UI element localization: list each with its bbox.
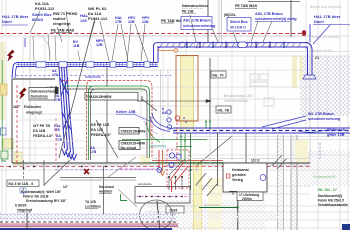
label HAL 17B ueber Dach blue xyxy=(2,14,29,24)
dark block GU xyxy=(55,87,59,94)
pale green halo band xyxy=(93,87,145,92)
svg-text:CM32015+WW: CM32015+WW xyxy=(121,142,146,146)
M circles xyxy=(169,153,181,168)
magenta dash-dot to valve xyxy=(120,168,156,170)
small yellow box left xyxy=(3,139,13,149)
label WT PE 7B block xyxy=(33,124,54,138)
svg-text:Technikzentrale: Technikzentrale xyxy=(224,99,248,103)
gray arc top-left xyxy=(35,33,50,58)
gray diagonal bottom xyxy=(118,189,137,207)
svg-text:EA 3 W 11B - 6: EA 3 W 11B - 6 xyxy=(9,182,34,186)
blue diagonal pointer right xyxy=(262,116,306,127)
tray B left elbow down xyxy=(12,63,17,79)
label DG5 box xyxy=(166,206,184,213)
dark dash row xyxy=(0,221,176,223)
label HAL 125 blue xyxy=(80,13,89,23)
svg-text:gerades: gerades xyxy=(232,173,246,177)
red X marker xyxy=(84,169,89,174)
svg-text:Drehstrom: Drehstrom xyxy=(31,95,48,99)
wire blue drop right x310 xyxy=(309,24,311,42)
bottom wall black xyxy=(12,162,310,164)
box with magenta dashdot xyxy=(135,187,190,204)
extra drop lines to tray xyxy=(33,34,80,61)
heizkanal box xyxy=(223,163,267,192)
svg-text:Datenanschluss: Datenanschluss xyxy=(31,90,57,94)
wire blue vertical x25 xyxy=(24,38,26,47)
gray slashes right of heizkanal xyxy=(272,155,282,166)
svg-text:17B: 17B xyxy=(90,150,97,154)
gray diagonal small xyxy=(169,158,186,175)
navy line bottom xyxy=(0,228,172,230)
blue leader top right xyxy=(313,25,330,44)
svg-text:westlich: westlich xyxy=(98,190,112,194)
label BV 11B blue above tray xyxy=(73,40,80,48)
label ADL 17B Braun schutzverrohrt blue xyxy=(255,12,297,21)
faint horizontal y158.5 xyxy=(152,158,310,160)
red diagonals xyxy=(170,162,184,180)
svg-text:Lechtlüss: Lechtlüss xyxy=(85,205,101,209)
svg-text:Dach: Dach xyxy=(314,19,324,24)
svg-text:b 80/20: b 80/20 xyxy=(15,204,27,208)
label WK PL 62 xyxy=(88,6,108,21)
lavender dotted rows xyxy=(0,214,175,216)
svg-text:KE_70: KE_70 xyxy=(213,74,224,78)
green supply line bottom xyxy=(199,207,238,209)
red circle near blue circles xyxy=(175,116,179,120)
svg-text:17B: 17B xyxy=(52,73,59,77)
svg-text:Bodenkanal(e): WxH 1/8": Bodenkanal(e): WxH 1/8" xyxy=(21,190,62,194)
cable duct highlight yellow vertical 2 xyxy=(193,161,202,230)
gray faint text technik xyxy=(224,94,253,103)
blue circles near bus C start xyxy=(167,110,172,129)
gray faint text right of bus xyxy=(310,5,342,53)
svg-text:KE_7B: KE_7B xyxy=(218,109,230,113)
svg-text:Fahrn KB 25x0,5: Fahrn KB 25x0,5 xyxy=(318,199,344,203)
pump cluster dashed box xyxy=(167,150,189,188)
valve circle blue xyxy=(157,168,162,173)
svg-text:30 LKA C: 30 LKA C xyxy=(230,26,246,30)
bus C dashed blue xyxy=(173,128,350,133)
splice hexagon on bus A xyxy=(237,42,248,48)
wire vertical x44 bottom-left xyxy=(43,160,45,186)
dark dashed vertical x23 bottom xyxy=(23,160,25,196)
svg-text:eingelegt: eingelegt xyxy=(53,21,71,26)
svg-text:Dach: Dach xyxy=(2,19,12,24)
blue stub y77 xyxy=(85,76,101,78)
label HAL 17B small blue xyxy=(115,16,123,24)
box CM32015HWW top long xyxy=(85,93,138,101)
svg-text:TA 125: TA 125 xyxy=(85,200,96,204)
svg-text:80023: 80023 xyxy=(32,17,44,22)
bus A horizontal thick blue with hatch xyxy=(157,42,308,49)
svg-text:Verstärkausbandbr: Verstärkausbandbr xyxy=(318,203,349,207)
svg-text:eingelegt: eingelegt xyxy=(17,208,33,212)
faint building grid horizontals xyxy=(0,36,350,228)
label Silent Box 30 LKA C blue xyxy=(227,18,251,32)
green drops below bus C xyxy=(181,133,185,163)
red vertical drop xyxy=(171,180,173,192)
small blue box left bottom xyxy=(20,188,26,193)
green vertical x190 xyxy=(190,133,192,190)
top red dashed line xyxy=(0,33,302,35)
svg-text:ADL 17B Braun: ADL 17B Braun xyxy=(255,12,283,16)
svg-text:PEDEA-1/2": PEDEA-1/2" xyxy=(91,133,112,137)
svg-text:ADL 17B Braun: ADL 17B Braun xyxy=(183,19,211,23)
building outer wall faint xyxy=(30,36,310,163)
column circles on bus A xyxy=(179,42,185,48)
label ADL 17B Braun schutzverrohrung blue box xyxy=(181,17,216,30)
svg-text:EA 125: EA 125 xyxy=(91,128,103,132)
svg-text:schutzverrohrung: schutzverrohrung xyxy=(308,117,341,121)
svg-text:PE TAB WAS: PE TAB WAS xyxy=(51,29,75,33)
svg-text:No-cloud: No-cloud xyxy=(121,146,137,150)
svg-text:Silent Box: Silent Box xyxy=(230,20,248,24)
violet dash right xyxy=(319,143,321,159)
bus C left curves xyxy=(152,113,173,129)
small yellow box left 2 xyxy=(14,152,22,164)
svg-text:C3: C3 xyxy=(315,56,319,60)
svg-text:Dachbuswehl(l): Dachbuswehl(l) xyxy=(318,194,342,198)
dimension arrow xyxy=(140,100,211,103)
svg-text:11B: 11B xyxy=(73,44,80,48)
label AA 17B blue 2 xyxy=(90,146,97,154)
bus A right end flare xyxy=(303,75,316,79)
wire line through circle xyxy=(157,201,160,230)
red blob marker top right xyxy=(302,30,306,36)
colored corner curves xyxy=(146,122,160,142)
hatch slashes left of heizkanal xyxy=(196,173,217,196)
svg-text:Fußboden: Fußboden xyxy=(24,105,41,109)
checker path band bottom xyxy=(0,213,178,221)
green drops into bus C xyxy=(206,122,210,128)
svg-text:Kabelkanal: Kabelkanal xyxy=(204,203,220,207)
svg-text:Keller 13B: Keller 13B xyxy=(116,109,136,114)
label 112 Fussboden eingelegt xyxy=(13,105,43,115)
svg-text:PEDEA-1/2": PEDEA-1/2" xyxy=(33,134,54,138)
svg-text:PE TAB WAS: PE TAB WAS xyxy=(235,4,258,8)
green stub y146 xyxy=(176,146,192,148)
svg-text:WL DN - 17: WL DN - 17 xyxy=(318,188,337,192)
svg-text:17B: 17B xyxy=(56,138,63,142)
wall line dark x210 xyxy=(209,58,211,130)
wire vertical x27 bottom xyxy=(26,213,28,230)
wall pair x219 top xyxy=(218,0,220,42)
black text block right bottom xyxy=(318,194,349,207)
faint verticals below bus C xyxy=(210,133,268,163)
label MPV 12B blue above tray xyxy=(96,39,104,47)
label EA 3 W 11B box xyxy=(7,180,39,187)
label KA 11A xyxy=(35,1,55,11)
green vertical left edge xyxy=(1,60,3,160)
red dashed vertical x17 xyxy=(16,85,18,163)
black verticals below bus C xyxy=(217,133,219,186)
red marks below bus C xyxy=(176,122,178,163)
svg-text:2200m: 2200m xyxy=(242,197,252,201)
label b KA 125 blue tiny xyxy=(162,107,167,115)
svg-text:KA: KA xyxy=(162,111,167,115)
svg-text:eingelegt: eingelegt xyxy=(26,111,43,115)
svg-text:DG5: DG5 xyxy=(170,209,178,213)
trio tails to heizkanal xyxy=(152,160,223,162)
svg-text:12B: 12B xyxy=(128,20,135,24)
label Silent Box 80023 blue xyxy=(32,12,52,22)
cable duct highlight yellow vertical 1 xyxy=(180,55,194,130)
svg-text:KE PE 11B: KE PE 11B xyxy=(91,123,110,127)
label AA 17B blue xyxy=(56,134,63,142)
label HAL 17B ueber Dach right blue xyxy=(314,14,341,24)
black diagonal crane line xyxy=(59,18,95,158)
svg-text:17B: 17B xyxy=(115,20,122,24)
wall pair x160 x168 xyxy=(160,70,162,130)
small blue box left edge xyxy=(1,128,7,135)
hatch columns right bottom xyxy=(277,135,284,230)
faint interior lines left building xyxy=(12,100,86,163)
svg-text:No-cloud: No-cloud xyxy=(99,185,114,189)
orange box left edge xyxy=(0,84,7,95)
svg-text:PE 11B: PE 11B xyxy=(182,10,194,14)
box KE_7B xyxy=(216,106,231,113)
tray B horizontal blue with hatch xyxy=(16,62,158,67)
svg-text:WT PE 7B: WT PE 7B xyxy=(33,124,50,128)
violet line bottom xyxy=(0,224,178,226)
label HAL 125 blue mid xyxy=(54,124,61,132)
label No-cloud westlich xyxy=(98,185,114,194)
box 17 Uhrleitung xyxy=(229,192,263,202)
svg-text:Heizkanal: Heizkanal xyxy=(232,168,249,172)
black diagonal 3 bottom-left xyxy=(44,160,70,185)
top wall line right xyxy=(248,1,300,3)
gray diagonal up-right xyxy=(108,157,136,177)
red dashed vertical x56 xyxy=(55,118,57,163)
svg-text:Braun im TG: Braun im TG xyxy=(312,49,333,53)
black diagonal 2 xyxy=(96,120,118,158)
svg-text:12B: 12B xyxy=(96,43,103,47)
svg-text:Feuerwehr Pl: Feuerwehr Pl xyxy=(314,175,335,179)
svg-text:(M)CKL: (M)CKL xyxy=(224,13,236,17)
svg-text:Dreischmarkung R/Y 1/8": Dreischmarkung R/Y 1/8" xyxy=(26,199,67,203)
label AA 17B below tray blue xyxy=(52,69,59,77)
green line mid xyxy=(122,139,207,141)
box CM32015HWW right xyxy=(119,128,146,135)
label HPV 12B small blue 2 xyxy=(142,16,150,24)
gray fixtures right top xyxy=(250,74,274,106)
hatch ramp top right xyxy=(300,56,350,116)
hatch area right mid xyxy=(296,150,350,186)
svg-text:schutzverrohrung: schutzverrohrung xyxy=(183,24,216,28)
svg-text:14°: 14° xyxy=(63,185,69,189)
navy rect corner xyxy=(342,224,350,230)
svg-text:CM32015HWW: CM32015HWW xyxy=(121,130,147,134)
svg-text:12B: 12B xyxy=(142,20,149,24)
svg-text:WL 17B Braun: WL 17B Braun xyxy=(308,112,335,116)
label KE PE 11B block xyxy=(91,123,112,137)
black dots row with drops xyxy=(168,176,183,178)
green-red rounded region xyxy=(62,81,152,161)
riser arrowheads xyxy=(62,149,77,160)
red arrow marker 1 xyxy=(7,50,15,62)
wall vertical dark x208 top xyxy=(207,0,209,42)
svg-text:Wellrosch—: Wellrosch— xyxy=(327,128,349,132)
label TA 125 Lechtluess xyxy=(85,200,101,209)
label MA 17B blue xyxy=(54,94,61,102)
red-orange conduit rect xyxy=(176,56,198,122)
svg-text:112°: 112° xyxy=(13,105,21,109)
wall double line bottom left-center xyxy=(60,177,136,179)
node orange on bus A left xyxy=(174,49,178,53)
green ticks left edge xyxy=(1,155,6,157)
pencil circle xyxy=(140,200,173,230)
box KE_70 xyxy=(211,71,226,78)
riser bundle braided blue xyxy=(59,67,74,154)
svg-text:amstecke: amstecke xyxy=(138,182,152,186)
svg-text:P1931-112: P1931-112 xyxy=(88,16,108,21)
black diagonal long xyxy=(197,136,232,165)
corner arrow mark xyxy=(137,96,142,101)
leader lines top labels xyxy=(30,11,272,61)
bus A elbow to tray left xyxy=(154,43,162,63)
label RW 71 PEHD xyxy=(53,11,77,26)
label HPV 12B small blue xyxy=(128,16,136,24)
left wall black xyxy=(12,78,55,80)
red dash with dots y163 xyxy=(0,166,312,168)
wire vertical x247 xyxy=(237,201,239,231)
svg-text:gitter 13B: gitter 13B xyxy=(327,133,345,137)
label ADL 17B Braun schutzverrohrung right blue xyxy=(308,112,341,121)
wall line x291 top xyxy=(290,0,292,37)
yellow strip right mid xyxy=(295,140,308,162)
svg-text:Verteg: Verteg xyxy=(232,178,243,182)
left edge yellow strip xyxy=(0,42,5,120)
hatch area bottom center xyxy=(150,200,265,230)
svg-text:Besprechung 1.OG: Besprechung 1.OG xyxy=(224,94,253,98)
box Datenanschluss Drehstrom xyxy=(29,88,57,101)
red drop vertical xyxy=(158,150,160,167)
box CM32015WW No-cloud xyxy=(119,141,146,151)
svg-text:125: 125 xyxy=(54,128,60,132)
wall line dark x107 xyxy=(106,67,108,163)
red line bottom xyxy=(0,223,178,225)
label Wellrosch gitter blue xyxy=(327,128,349,137)
svg-text:Braun und verputzt: Braun und verputzt xyxy=(310,5,342,9)
wall columns x291 x297 bottom xyxy=(290,135,292,230)
svg-text:Datenanschluss: Datenanschluss xyxy=(182,4,208,8)
small green box left edge xyxy=(1,151,8,159)
label Datenanschluss PE 11B box xyxy=(182,4,208,14)
cable duct highlight yellow vertical 3 pale xyxy=(208,178,222,230)
wire vertical x103 xyxy=(103,166,105,214)
red arrow marker 2 xyxy=(19,88,27,100)
small yellow blob center xyxy=(140,156,150,165)
red-brown line bottom xyxy=(0,226,178,228)
blue dashed line below tray xyxy=(16,75,172,77)
svg-text:125: 125 xyxy=(80,18,87,23)
green bracket xyxy=(121,194,128,201)
yellow strips near elbow xyxy=(292,55,297,88)
bottom-left text block xyxy=(15,190,67,212)
orange drop with arrow xyxy=(162,150,164,171)
junction boxes on tray B xyxy=(36,62,46,67)
teal stub xyxy=(150,145,166,147)
bus A elbow down right xyxy=(305,43,312,75)
svg-text:schutzverrohrt(4) dmtg: schutzverrohrt(4) dmtg xyxy=(255,17,297,21)
svg-text:Braun im Estrich: Braun im Estrich xyxy=(312,35,339,39)
lavender dash y169 xyxy=(55,169,200,171)
svg-text:Führer Kb 23LB: Führer Kb 23LB xyxy=(23,195,49,199)
